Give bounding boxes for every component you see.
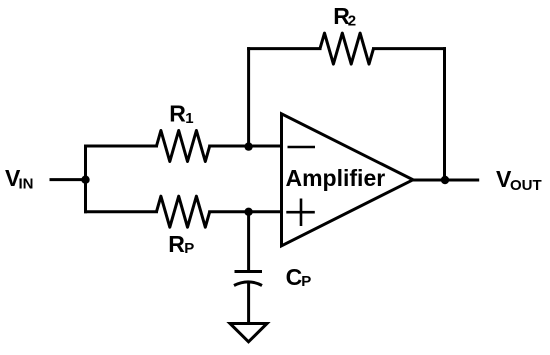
wire R2 left: [249, 47, 320, 50]
svg-text:IN: IN: [19, 175, 34, 192]
node B (non-inverting input): [244, 208, 252, 216]
label CP: [286, 264, 312, 290]
resistor R2: [320, 33, 374, 64]
wire top branch left: [86, 145, 157, 148]
svg-text:P: P: [184, 240, 194, 257]
label RP: [168, 231, 194, 257]
label VOUT: [496, 166, 542, 194]
svg-text:C: C: [286, 264, 303, 290]
svg-text:OUT: OUT: [510, 177, 542, 194]
op-amp non-inverting input plus: [286, 199, 315, 227]
svg-text:R: R: [169, 101, 186, 127]
wire R2 right: [374, 47, 445, 50]
node VIN junction: [81, 176, 89, 184]
node A (inverting input): [244, 142, 252, 150]
label R2: [333, 3, 356, 30]
wire bottom branch right: [210, 210, 282, 213]
wire feedback vertical: [443, 49, 446, 180]
wire node B to capacitor: [247, 212, 250, 272]
ground: [230, 324, 267, 342]
svg-text:1: 1: [185, 110, 193, 127]
svg-text:2: 2: [348, 13, 356, 30]
svg-text:Amplifier: Amplifier: [286, 165, 386, 191]
wire input branch vertical: [84, 146, 87, 212]
wire bottom branch left: [86, 210, 157, 213]
capacitor CP bottom plate: [234, 282, 262, 286]
svg-text:P: P: [301, 273, 311, 290]
node output junction: [441, 176, 449, 184]
wire capacitor to ground: [247, 284, 250, 324]
op-amp U1: [282, 114, 414, 246]
capacitor CP top plate: [235, 270, 263, 273]
wire node A to R2 vertical: [247, 49, 250, 146]
resistor R1: [157, 131, 210, 162]
svg-text:R: R: [168, 231, 185, 257]
label R1: [169, 101, 193, 128]
wire VIN lead: [51, 178, 86, 181]
resistor RP: [157, 196, 210, 227]
label VIN: [5, 165, 34, 193]
label Amplifier: [286, 165, 386, 191]
wire top branch right: [210, 145, 282, 148]
wire output: [413, 179, 478, 182]
op-amp inverting input minus: [288, 146, 316, 149]
